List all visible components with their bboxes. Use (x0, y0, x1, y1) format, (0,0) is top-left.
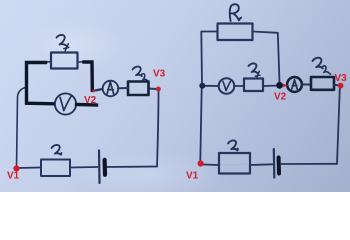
svg-text:V2: V2 (274, 92, 287, 103)
svg-text:V3: V3 (335, 73, 348, 84)
svg-text:V3: V3 (153, 69, 166, 80)
svg-text:V1: V1 (186, 171, 199, 182)
svg-text:V1: V1 (7, 171, 20, 182)
svg-text:V2: V2 (84, 95, 97, 106)
